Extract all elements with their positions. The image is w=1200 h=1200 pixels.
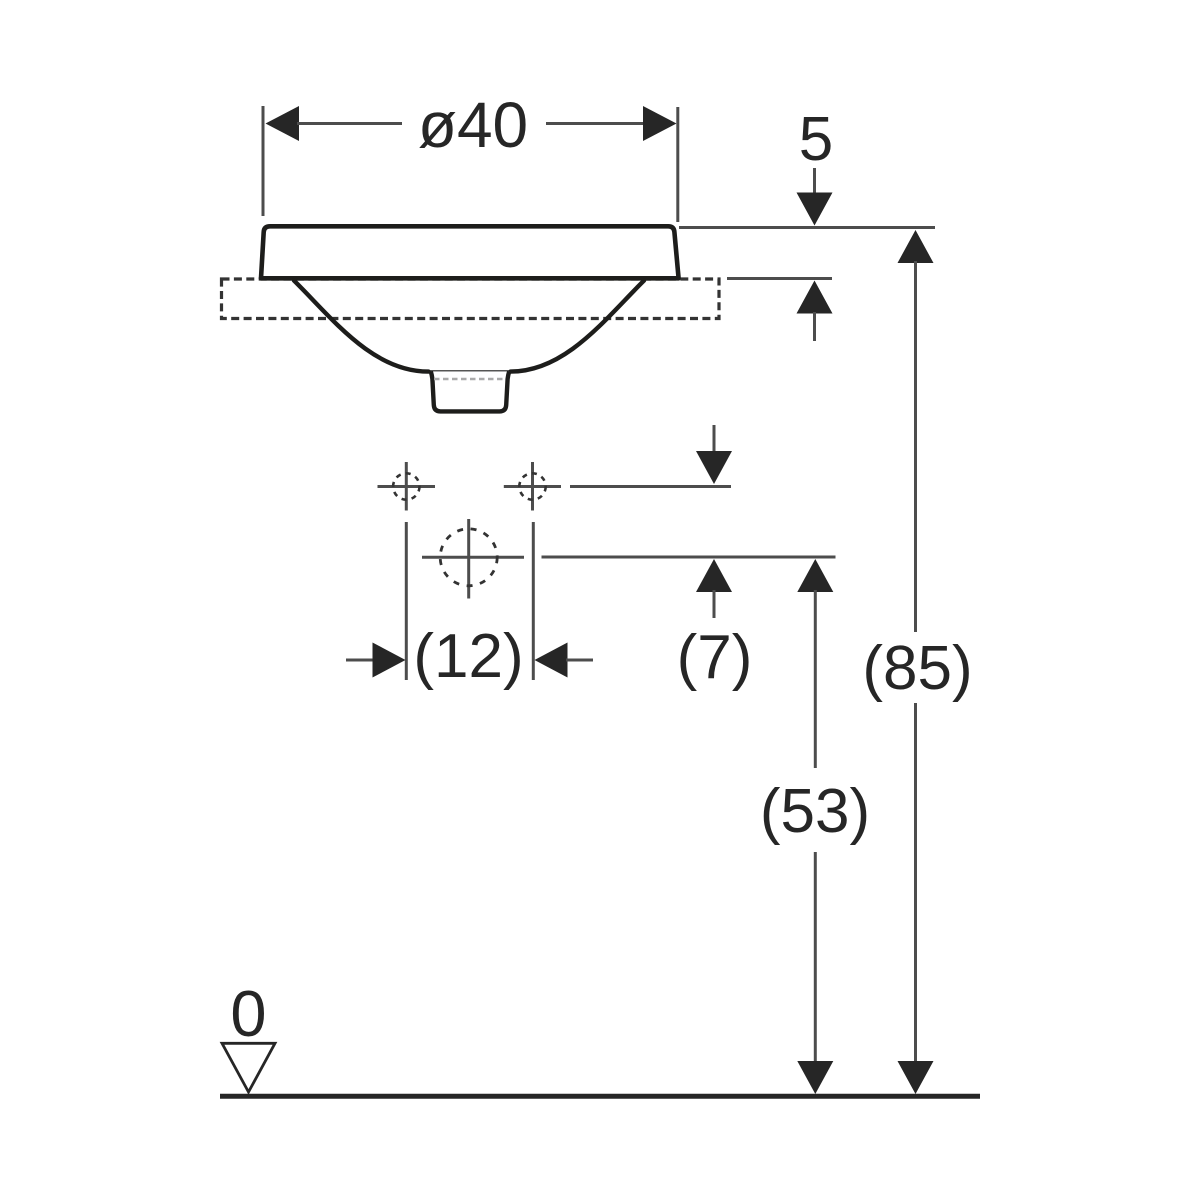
washbasin bowl bbox=[294, 281, 644, 372]
dimension 12 right tail bbox=[566, 659, 593, 662]
ground line bbox=[220, 1094, 980, 1099]
dimension 7 up arrow stem bbox=[713, 590, 716, 618]
drain lip line bbox=[427, 370, 513, 372]
dimension 12 right arrow bbox=[535, 643, 568, 678]
dimension 5 upper stem bbox=[813, 168, 816, 196]
countertop cutout dashed outline bbox=[222, 279, 720, 319]
drain center mark cross bbox=[422, 519, 524, 599]
dimension 85 upper stem bbox=[914, 261, 917, 632]
svg-text:(12): (12) bbox=[413, 622, 523, 691]
tap hole right dashed circle bbox=[519, 473, 545, 499]
drain inner line bbox=[434, 378, 506, 380]
dimension 53 up arrow bbox=[797, 559, 833, 592]
dimension o40 right arrow bbox=[643, 106, 677, 141]
dimension o40 left shaft bbox=[297, 122, 402, 125]
svg-text:(53): (53) bbox=[760, 777, 870, 846]
counter reference line bbox=[727, 277, 832, 280]
svg-text:0: 0 bbox=[230, 977, 266, 1050]
svg-text:(7): (7) bbox=[677, 623, 753, 692]
dimension 53 lower stem bbox=[814, 852, 817, 1062]
center reference line bbox=[542, 556, 836, 559]
washbasin rim bbox=[261, 226, 679, 278]
dimension 5 up arrow bbox=[797, 281, 833, 314]
dimension 5 lower stem bbox=[813, 312, 816, 341]
dimension 12 left extension line bbox=[405, 522, 408, 680]
dimension 12 right extension line bbox=[532, 522, 535, 680]
drain center mark dashed circle bbox=[440, 529, 497, 586]
dimension 85 down arrow bbox=[898, 1061, 934, 1094]
tap hole right cross bbox=[504, 462, 561, 511]
dimension 7 down arrow stem bbox=[713, 425, 716, 454]
dimension 5 down arrow bbox=[797, 193, 833, 226]
drain outlet bbox=[431, 371, 509, 411]
dimension 7 up arrow bbox=[696, 559, 732, 592]
svg-text:ø40: ø40 bbox=[418, 89, 528, 161]
dimension 7 down arrow bbox=[696, 451, 732, 484]
top reference line bbox=[679, 226, 935, 229]
dimension o40 left extension line bbox=[262, 106, 265, 216]
dimension 53 down arrow bbox=[797, 1061, 833, 1094]
dimension 12 left tail bbox=[346, 659, 374, 662]
dimension o40 left arrow bbox=[266, 106, 300, 141]
dimension 53 upper stem bbox=[814, 590, 817, 768]
datum triangle bbox=[222, 1043, 275, 1092]
dimension o40 right shaft bbox=[546, 122, 645, 125]
dimension 85 lower stem bbox=[914, 703, 917, 1062]
dimension o40 right extension line bbox=[676, 107, 679, 222]
dimension 85 up arrow bbox=[898, 230, 934, 263]
tap hole reference line bbox=[570, 485, 731, 488]
svg-text:5: 5 bbox=[799, 105, 833, 174]
svg-text:(85): (85) bbox=[862, 634, 972, 703]
tap hole left cross bbox=[378, 462, 436, 511]
tap hole left dashed circle bbox=[393, 473, 419, 499]
dimension 12 left arrow bbox=[373, 643, 406, 678]
